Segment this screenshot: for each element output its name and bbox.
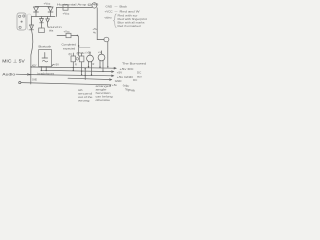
svg-text:GND: GND bbox=[106, 4, 114, 8]
svg-text:with: with bbox=[78, 89, 83, 92]
svg-text:R: R bbox=[93, 63, 95, 66]
svg-text:Horizontal Amp @ 4R: Horizontal Amp @ 4R bbox=[57, 3, 100, 7]
svg-text:GND: GND bbox=[115, 79, 123, 83]
svg-text:arranged: arranged bbox=[96, 85, 112, 88]
svg-text:aux: aux bbox=[137, 75, 142, 79]
svg-text:video: video bbox=[105, 15, 113, 19]
svg-text:Completed: Completed bbox=[62, 43, 77, 47]
svg-text:+Vcc: +Vcc bbox=[44, 2, 51, 6]
svg-text:angle: angle bbox=[96, 88, 108, 91]
svg-text:second: second bbox=[78, 93, 93, 96]
svg-text:R: R bbox=[75, 64, 77, 67]
svg-text:Red and W: Red and W bbox=[120, 9, 140, 13]
svg-text:out of the: out of the bbox=[78, 96, 93, 99]
svg-text:MIC ⊥ 5V: MIC ⊥ 5V bbox=[2, 58, 25, 63]
svg-text:KEY: KEY bbox=[32, 66, 37, 68]
svg-text:wrong: wrong bbox=[78, 100, 91, 103]
svg-text:+5v DC: +5v DC bbox=[120, 67, 135, 71]
svg-text:+5V: +5V bbox=[117, 71, 122, 75]
svg-text:+VCC: +VCC bbox=[105, 9, 114, 13]
svg-text:+Vcc: +Vcc bbox=[63, 12, 70, 16]
svg-text:+5v GND: +5v GND bbox=[117, 75, 134, 79]
svg-text:—: — bbox=[115, 4, 118, 8]
svg-text:Black: Black bbox=[120, 4, 128, 8]
svg-text:The Borrowed: The Borrowed bbox=[122, 61, 146, 65]
svg-text:—: — bbox=[115, 9, 118, 13]
svg-text:expected: expected bbox=[63, 46, 76, 50]
svg-text:can belong: can belong bbox=[96, 95, 114, 98]
svg-text:otherwise: otherwise bbox=[96, 99, 111, 102]
svg-text:GND: GND bbox=[32, 80, 37, 82]
svg-text:Bluetooth: Bluetooth bbox=[39, 45, 52, 49]
svg-text:Audio: Audio bbox=[2, 72, 15, 76]
svg-text:function: function bbox=[96, 92, 112, 95]
